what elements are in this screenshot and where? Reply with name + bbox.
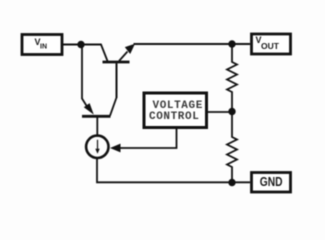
- svg-text:OUT: OUT: [261, 41, 280, 51]
- svg-text:IN: IN: [40, 44, 47, 51]
- svg-text:GND: GND: [260, 174, 283, 189]
- svg-text:CONTROL: CONTROL: [149, 111, 199, 123]
